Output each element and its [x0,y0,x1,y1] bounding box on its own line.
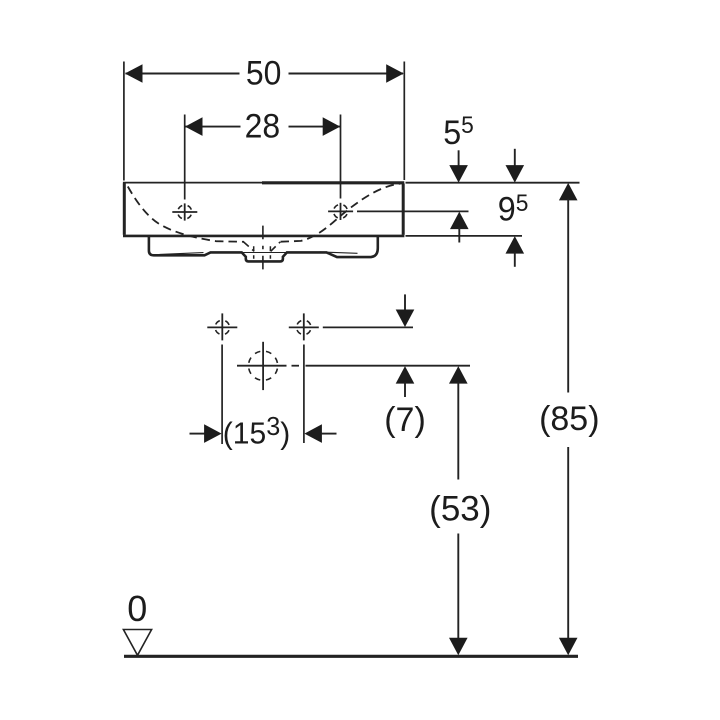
dimension 5.5: upper arrow stem [458,150,460,167]
dimension 9.5: lower arrowhead up [506,236,525,254]
dimension 50: arrowhead left [125,64,143,83]
reference line: mounting hole level [323,326,413,328]
dimension 15.3: left arrow stem [190,433,205,435]
bowl dashed V into drain left [244,242,255,251]
svg-text:(53): (53) [429,489,491,528]
dimension 9.5: lower arrow stem [514,252,516,267]
thin line across drain mouth [242,252,287,254]
dimension 9.5: upper arrowhead down [506,165,525,183]
reference line: siphon level [237,365,470,367]
svg-text:95: 95 [498,189,529,228]
dimension 7: lower arrow stem [404,382,406,397]
dimension 28: arrowhead right [323,117,341,136]
mounting hole left: dashed circle [215,320,229,334]
dimension 85: upper stem [567,199,569,393]
datum triangle symbol [123,630,151,656]
dimension 53: lower arrowhead down [449,638,468,656]
svg-text:(7): (7) [384,401,426,439]
faucet hole left: dashed circle [178,205,192,219]
dimension 15.3: left arrowhead [204,424,222,443]
bowl hidden contour dashed right [281,184,401,242]
dimension 7: upper arrow stem [404,294,406,312]
dimension 85: upper arrowhead up [559,183,578,201]
mounting hole left: crosshair [207,313,237,340]
siphon centre: vertical centerline [262,342,264,390]
svg-text:50: 50 [246,53,282,91]
dimension 15.3: right arrowhead [304,424,322,443]
svg-text:(85): (85) [539,400,599,438]
faucet hole right: crosshair [328,203,353,220]
faucet hole left: crosshair [172,203,197,220]
reference line: basin bottom level right [406,235,523,237]
dimension 5.5: upper arrowhead down [449,165,468,183]
dimension 28: dimension line [185,126,340,128]
dimension 53: lower stem [457,534,459,641]
washbasin body outline [123,183,405,236]
siphon centre: dashed circle [249,351,278,380]
dimension 5.5: lower arrowhead up [450,212,469,230]
drain hidden edge dashed vertical right [269,246,271,258]
dimension 53: upper arrowhead up [449,366,468,384]
dimension 7: lower arrowhead up [396,366,415,384]
svg-text:28: 28 [245,106,281,144]
dimension 15.3: extension line right [303,345,305,444]
dimension 53: upper stem [457,382,459,480]
dimension 28: extension line left [184,115,186,200]
dimension 9.5: upper arrow stem [514,149,516,167]
underside thin lip line left [160,253,204,255]
mounting hole right: dashed circle [297,320,311,334]
bowl dashed V into drain right [271,242,281,251]
drain hidden edge dashed vertical left [253,246,255,258]
dimension 28: extension line right [340,115,342,199]
mounting hole right: crosshair [289,313,319,340]
svg-text:(153): (153) [223,413,290,451]
dimension 28: arrowhead left [185,117,203,136]
reference line: faucet hole level [357,210,469,212]
dimension 15.3: extension line left [221,345,223,445]
floor line [124,655,578,658]
basin vertical centerline dash-dot [262,226,264,272]
faucet hole right: dashed circle [334,204,348,218]
dimension 50: extension line right [403,62,405,181]
underside thin lip line right [320,252,358,253]
dimension 5.5: lower arrow stem [458,228,460,243]
dimension 7: upper arrowhead down [396,310,415,328]
dimension 85: lower stem [567,447,569,640]
dimension 15.3: right arrow stem [322,433,337,435]
svg-text:0: 0 [127,588,147,629]
dimension 85: lower arrowhead down [559,638,578,656]
dimension 50: arrowhead right [386,64,404,83]
svg-text:55: 55 [443,112,474,153]
bowl hidden contour dashed left [128,187,244,242]
washbasin underside / pedestal outline [149,236,378,261]
dimension 50: extension line left [123,62,125,181]
dimension 50: dimension line [126,73,404,75]
reference line: basin rim level right [406,182,580,184]
